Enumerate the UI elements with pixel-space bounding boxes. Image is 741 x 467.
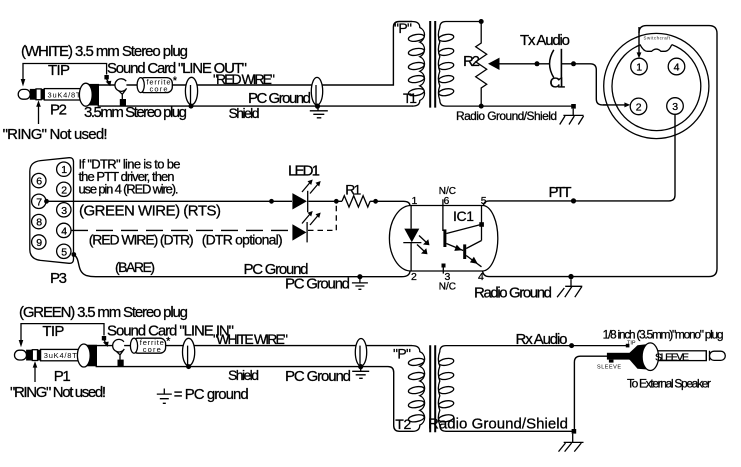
- svg-text:Shield: Shield: [229, 105, 260, 121]
- transformer T1 primary winding: [408, 22, 425, 107]
- svg-text:core: core: [150, 85, 168, 94]
- transformer T2 secondary winding: [438, 346, 628, 432]
- wire XLR pin1 to right ground rail: [574, 26, 718, 277]
- IC1 phototransistor Q1: [443, 225, 480, 251]
- capacitor C1: [550, 49, 562, 78]
- node T2 radio ground: [572, 429, 577, 434]
- PC ground symbol (bottom shield): [352, 367, 369, 379]
- svg-text:1/8 inch (3.5mm)"mono" plug: 1/8 inch (3.5mm)"mono" plug: [603, 328, 724, 342]
- node R1 right: [373, 199, 378, 204]
- wire P1 sleeve shield to T2: [96, 367, 413, 432]
- connector mono plug 1/8 inch: [607, 343, 725, 371]
- svg-text:2: 2: [411, 271, 417, 283]
- svg-text:1: 1: [61, 164, 67, 176]
- resistor R1: [342, 196, 370, 207]
- svg-text:"RED WIRE": "RED WIRE": [213, 71, 275, 87]
- svg-text:IC1: IC1: [453, 208, 474, 224]
- P3 pin 8: [32, 214, 46, 228]
- IC1 pin 6 base stub: [442, 199, 444, 231]
- P3 pin 5: [57, 244, 71, 258]
- P3 pin 2: [57, 182, 71, 196]
- wire IC1 pin 4 to radio ground rail: [483, 271, 574, 277]
- svg-text:*: *: [166, 336, 171, 348]
- RING callout arrow P2: [36, 100, 41, 124]
- node pin 5: [71, 252, 76, 257]
- cable entry loop P1: [113, 339, 125, 367]
- wire IC1 pin 2 to PC ground rail: [352, 271, 410, 276]
- P3 pin 6: [32, 173, 46, 187]
- P3 pin 1: [57, 162, 71, 176]
- svg-text:Tx Audio: Tx Audio: [520, 32, 570, 49]
- P3 pin 4: [57, 223, 71, 237]
- connector XLR inner circle with keyway notch: [612, 45, 701, 131]
- svg-text:3: 3: [672, 101, 678, 113]
- wire LED1 to R1: [309, 200, 343, 202]
- wire R1 to IC1 pin 1: [370, 201, 410, 206]
- svg-text:Switchcraft: Switchcraft: [644, 36, 671, 41]
- svg-text:4: 4: [61, 225, 67, 237]
- node Q1 collector junction: [479, 222, 484, 227]
- connector P3 DB9 outline: [30, 158, 74, 264]
- svg-text:9: 9: [36, 237, 42, 249]
- node LED1 anode junction: [269, 199, 274, 204]
- svg-text:(WHITE) 3.5 mm Stereo plug: (WHITE) 3.5 mm Stereo plug: [21, 43, 188, 60]
- connector P1 3.5mm stereo plug body: [15, 344, 98, 367]
- svg-text:(BARE): (BARE): [115, 259, 155, 275]
- potentiometer R2: [476, 22, 549, 107]
- node on wiper wire: [535, 61, 540, 66]
- svg-text:Shield: Shield: [228, 367, 259, 383]
- wire P2 sleeve shield to T1: [98, 105, 413, 107]
- svg-text:8: 8: [36, 217, 42, 229]
- IC1 internal LED: [403, 206, 429, 272]
- svg-text:(DTR optional): (DTR optional): [202, 232, 283, 248]
- XLR pin 1: [631, 58, 648, 75]
- optocoupler IC1 body: [389, 206, 497, 272]
- radio ground symbol (top): [560, 109, 584, 125]
- svg-text:T1: T1: [403, 90, 417, 106]
- svg-text:3uK4/8T: 3uK4/8T: [48, 90, 81, 99]
- svg-text:(RED WIRE) (DTR): (RED WIRE) (DTR): [89, 232, 194, 248]
- svg-text:3uK4/8T: 3uK4/8T: [44, 351, 77, 360]
- mono plug tip connection mark: [626, 344, 630, 348]
- svg-text:C1: C1: [550, 75, 566, 92]
- LED LED1 (RTS): [292, 180, 320, 213]
- P3 pin 3: [57, 203, 71, 217]
- svg-text:SLEEVE: SLEEVE: [655, 351, 689, 363]
- svg-text:5: 5: [61, 246, 67, 258]
- svg-text:N/C: N/C: [439, 186, 456, 197]
- svg-text:Rx Audio: Rx Audio: [516, 331, 568, 348]
- svg-text:P1: P1: [54, 368, 71, 385]
- wire mono plug sleeve to radio ground: [574, 356, 607, 429]
- transformer T2 core: [430, 345, 435, 432]
- RING callout arrow P1: [33, 361, 38, 382]
- radio ground symbol (bottom): [559, 434, 584, 452]
- svg-text:1: 1: [412, 195, 418, 207]
- radio ground symbol (middle): [557, 279, 582, 297]
- shield loop ellipse 1 (bottom): [183, 338, 195, 369]
- svg-text:*: *: [173, 75, 178, 87]
- shield loop ellipse 2 with PC ground tap (bottom): [355, 339, 366, 370]
- svg-text:"P": "P": [394, 20, 412, 36]
- LED LED2 (DTR optional): [292, 211, 320, 242]
- node radio ground at IC1 pin4 rail: [568, 274, 573, 279]
- shield loop ellipse 2 with PC ground tap (top): [311, 77, 322, 108]
- svg-text:use pin 4 (RED wire).: use pin 4 (RED wire).: [79, 181, 179, 196]
- svg-text:"RING" Not used!: "RING" Not used!: [3, 126, 108, 143]
- svg-text:"P": "P": [393, 346, 411, 362]
- XLR pin 3: [667, 98, 684, 115]
- PC ground legend symbol: [157, 389, 172, 404]
- svg-text:"WHITE WIRE": "WHITE WIRE": [213, 331, 288, 347]
- svg-text:LED1: LED1: [288, 162, 320, 179]
- wire P1 tip to T2 (WHITE WIRE): [97, 345, 412, 347]
- IC1 pin 3 stub: [442, 265, 444, 273]
- svg-text:P3: P3: [50, 270, 67, 287]
- svg-text:1: 1: [636, 62, 642, 74]
- transformer T1 core: [430, 21, 435, 108]
- transformer T1 secondary winding: [438, 22, 573, 107]
- svg-text:Radio Ground: Radio Ground: [474, 285, 552, 302]
- svg-text:To External Speaker: To External Speaker: [627, 377, 711, 391]
- svg-text:(GREEN WIRE) (RTS): (GREEN WIRE) (RTS): [79, 203, 221, 220]
- node pin 7: [44, 199, 49, 204]
- svg-text:T2: T2: [395, 416, 411, 432]
- wire drop into XLR pin 1: [638, 27, 640, 53]
- wire BARE from pin 5 to PC ground rail: [74, 255, 352, 277]
- svg-text:N/C: N/C: [439, 282, 456, 293]
- note text DTR instructions: [79, 156, 181, 196]
- node radio ground (top): [571, 104, 576, 109]
- connector P2 3.5mm stereo plug body: [18, 83, 99, 106]
- node T1 secondary top / R2 top: [479, 19, 484, 24]
- svg-text:7: 7: [36, 196, 42, 208]
- wire IC1 pin 5 to PTT line: [484, 201, 490, 206]
- node Rx Audio: [569, 343, 574, 348]
- ferrite core (bottom): [130, 336, 171, 355]
- node after C1: [571, 61, 576, 66]
- node R2 bottom: [479, 104, 484, 109]
- svg-text:6: 6: [36, 176, 42, 188]
- svg-text:"RING" Not used!: "RING" Not used!: [10, 384, 106, 401]
- TIP callout bracket P2: [21, 64, 112, 87]
- svg-text:= PC ground: = PC ground: [174, 386, 249, 403]
- svg-text:Radio Ground/Shield: Radio Ground/Shield: [456, 109, 557, 123]
- ferrite core (top): [137, 75, 178, 94]
- svg-text:SLEEVE: SLEEVE: [597, 365, 621, 371]
- node PC ground tap: [357, 274, 362, 279]
- svg-text:2: 2: [61, 184, 67, 196]
- TIP callout bracket P1: [19, 324, 109, 348]
- svg-text:4: 4: [674, 62, 680, 74]
- XLR pin 2: [630, 98, 647, 115]
- svg-text:3: 3: [61, 205, 67, 217]
- svg-text:PC Ground: PC Ground: [285, 276, 350, 293]
- cable entry loop P2: [115, 79, 127, 107]
- connector XLR outer circle: [604, 33, 709, 138]
- node PTT junction: [571, 198, 576, 203]
- XLR pin 4: [668, 58, 685, 75]
- svg-text:PTT: PTT: [549, 184, 572, 201]
- svg-text:(GREEN) 3.5 mm Stereo plug: (GREEN) 3.5 mm Stereo plug: [19, 304, 188, 321]
- transformer T2 primary winding: [408, 346, 425, 432]
- P3 pin 9: [32, 235, 46, 249]
- svg-text:Radio Ground/Shield: Radio Ground/Shield: [428, 416, 568, 433]
- PC ground symbol (middle): [352, 277, 368, 290]
- wire DTR dashed from pin 4 to LED2: [71, 229, 292, 231]
- wire into XLR pin 2 (inside connector face): [603, 102, 630, 107]
- svg-text:2: 2: [636, 101, 642, 113]
- P3 pin 7: [32, 194, 46, 208]
- shield loop ellipse 1 (top): [185, 77, 197, 108]
- wire XLR pin 3 to PTT: [489, 115, 675, 201]
- svg-text:TIP: TIP: [48, 62, 70, 79]
- arrowhead into XLR pin 2: [624, 102, 630, 107]
- node R1 left / dashed tie: [334, 199, 339, 204]
- svg-text:R2: R2: [463, 53, 480, 70]
- IC1 phototransistor Q2: [463, 206, 481, 267]
- wire C1 to XLR pin 2: [561, 64, 624, 105]
- wire P2 tip to T1 (RED WIRE): [99, 22, 412, 86]
- svg-text:core: core: [143, 345, 161, 354]
- wire dashed LED2 cathode to R1 left node: [308, 204, 336, 231]
- wire RTS from pin 7 to LED1: [47, 200, 293, 202]
- svg-text:TIP: TIP: [42, 323, 64, 340]
- svg-text:P2: P2: [50, 102, 67, 119]
- svg-text:PC Ground: PC Ground: [285, 368, 351, 385]
- PC ground symbol (top shield): [310, 106, 328, 118]
